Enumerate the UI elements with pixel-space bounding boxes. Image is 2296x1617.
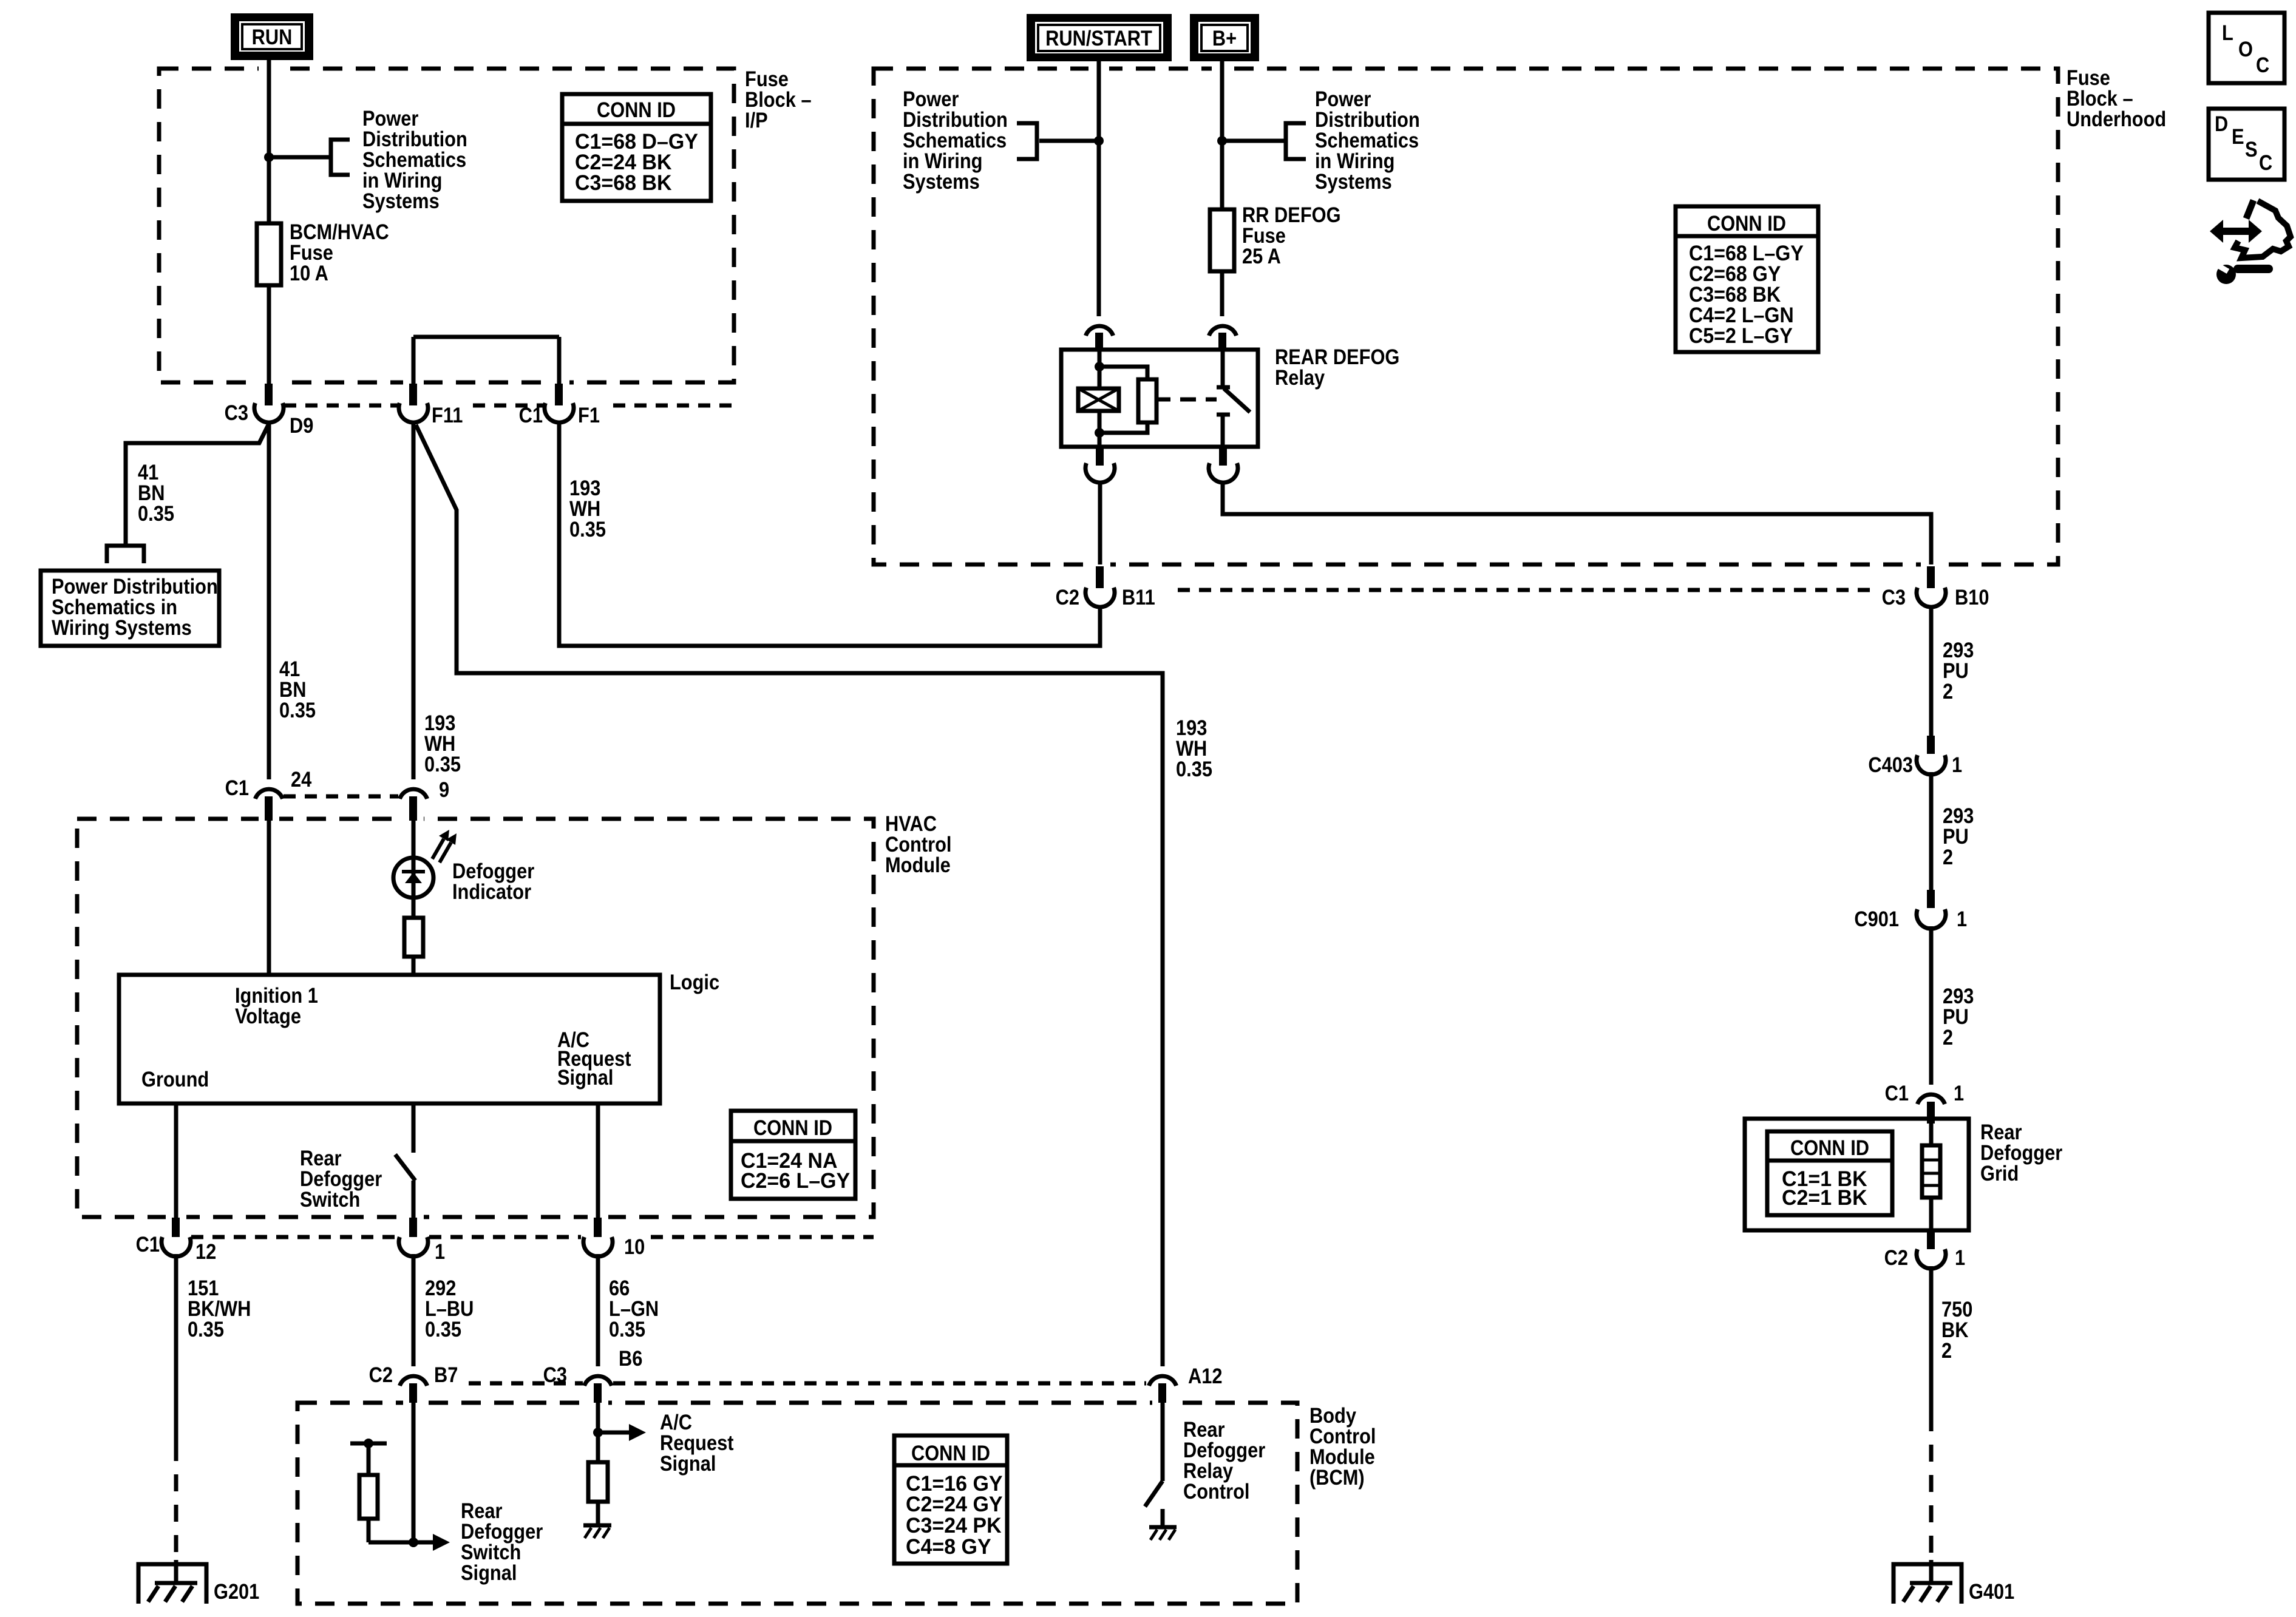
svg-text:A12: A12 (1188, 1364, 1223, 1388)
wire A12 into BCM (1161, 1403, 1165, 1481)
svg-text:Grid: Grid (1980, 1162, 2019, 1185)
svg-text:D9: D9 (290, 414, 313, 438)
BCM dashed box (297, 1403, 1297, 1604)
RUN keyswitch box (231, 13, 313, 60)
connector 9 (399, 778, 449, 821)
svg-text:25 A: 25 A (1242, 245, 1281, 268)
connector C2/B11 (1056, 566, 1155, 609)
svg-text:1: 1 (435, 1240, 445, 1264)
svg-text:9: 9 (439, 778, 449, 802)
dashed wire to G201 (174, 1444, 178, 1561)
svg-text:Voltage: Voltage (235, 1005, 301, 1028)
connector C3/B6 (543, 1347, 643, 1403)
connector C2/B7 (369, 1363, 458, 1403)
svg-text:Ground: Ground (141, 1068, 209, 1091)
wire junction to bracket (269, 155, 330, 160)
svg-text:C: C (2259, 151, 2272, 175)
wire switch from logic (412, 1103, 416, 1153)
junction dot T (364, 1439, 373, 1448)
svg-text:2: 2 (1943, 1026, 1953, 1049)
connector 10 (583, 1218, 645, 1259)
wire ground from logic (174, 1103, 178, 1218)
svg-text:Underhood: Underhood (2067, 107, 2166, 131)
wire RUN down through fuse to D9 (267, 60, 271, 384)
svg-text:Signal: Signal (660, 1452, 716, 1476)
relay coil wire (1098, 350, 1102, 447)
svg-text:0.35: 0.35 (425, 1318, 461, 1341)
defogger indicator LED (393, 830, 457, 898)
svg-text:C3: C3 (1882, 586, 1906, 609)
relay resistor loop (1099, 367, 1147, 433)
DESC box (2209, 109, 2284, 180)
svg-text:RUN/START: RUN/START (1045, 27, 1152, 50)
power distribution schematics box (left) (41, 571, 219, 646)
svg-text:Systems: Systems (362, 189, 440, 213)
connector C2/1 grid (1884, 1230, 1966, 1270)
svg-text:Systems: Systems (903, 170, 980, 194)
svg-text:C1: C1 (225, 776, 249, 800)
wire 9 down to LED (412, 821, 416, 858)
svg-text:0.35: 0.35 (609, 1318, 645, 1341)
svg-text:2: 2 (1943, 846, 1953, 869)
connector 1 (399, 1218, 445, 1264)
svg-text:C1: C1 (136, 1233, 160, 1256)
fine dash row 2 (284, 795, 398, 799)
ground A/C (small) (583, 1525, 611, 1538)
svg-text:2: 2 (1941, 1339, 1952, 1363)
wire B+ down to relay (1220, 61, 1224, 316)
junction dot B+ (1217, 136, 1227, 146)
svg-text:G201: G201 (214, 1580, 259, 1604)
svg-text:B10: B10 (1955, 586, 1989, 609)
svg-text:RUN: RUN (252, 25, 293, 49)
svg-text:0.35: 0.35 (188, 1318, 224, 1341)
resistor indicator (404, 918, 423, 957)
rear defogger switch blade (395, 1154, 415, 1181)
svg-text:C5=2 L–GY: C5=2 L–GY (1689, 324, 1793, 348)
wire LED to resistor (412, 898, 416, 918)
grid element (1922, 1145, 1940, 1198)
wire junction to bracket (right underhood) (1222, 139, 1286, 143)
svg-text:C901: C901 (1854, 907, 1899, 931)
svg-text:Signal: Signal (461, 1561, 517, 1585)
svg-text:C403: C403 (1868, 753, 1913, 777)
svg-text:1: 1 (1954, 1082, 1964, 1105)
svg-text:C3: C3 (225, 401, 248, 425)
T bar (350, 1442, 387, 1446)
svg-text:B7: B7 (434, 1363, 458, 1387)
relay REAR DEFOG box (1061, 350, 1258, 447)
junction dot RUN/START (1094, 136, 1104, 146)
svg-text:0.35: 0.35 (424, 753, 461, 776)
svg-text:CONN ID: CONN ID (1707, 212, 1786, 236)
svg-text:B6: B6 (619, 1347, 642, 1371)
relay top connector left (1085, 326, 1113, 351)
svg-text:1: 1 (1955, 1246, 1965, 1270)
svg-text:CONN ID: CONN ID (1790, 1136, 1869, 1160)
wire 10 down to B6 (596, 1254, 600, 1366)
svg-text:CONN ID: CONN ID (911, 1442, 990, 1465)
svg-text:1: 1 (1957, 907, 1967, 931)
arrow rear defogger switch signal (413, 1541, 433, 1545)
svg-text:CONN ID: CONN ID (753, 1116, 832, 1140)
svg-text:(BCM): (BCM) (1309, 1466, 1365, 1490)
connector A12 (1149, 1364, 1222, 1403)
wire relay left pin down to B11 (1098, 483, 1102, 564)
svg-text:C: C (2256, 53, 2269, 77)
wire to ground BCM (1161, 1509, 1165, 1527)
svg-text:D: D (2215, 112, 2228, 136)
wire 12 down to G201 (174, 1254, 178, 1444)
wire 1 down to B7 (412, 1254, 416, 1366)
wire F1 down right to B11 (559, 422, 1100, 646)
connector C1/1 grid (1885, 1082, 1965, 1124)
wire resistor to ground (596, 1502, 600, 1525)
wire C1/24 into logic (267, 821, 271, 975)
fuse BCM/HVAC (257, 223, 281, 285)
junction dot B7 (409, 1537, 418, 1547)
HVAC control module dashed box (77, 819, 874, 1217)
svg-text:Module: Module (885, 853, 951, 877)
relay bottom connector left (1085, 447, 1115, 483)
relay resistor tap (1156, 398, 1170, 402)
CONN ID table underhood (1676, 206, 1818, 352)
CONN ID table I/P (562, 94, 711, 201)
fuse block I/P dashed box (159, 69, 734, 382)
svg-text:0.35: 0.35 (1176, 758, 1212, 781)
svg-text:C2=24 GY: C2=24 GY (906, 1493, 1003, 1516)
wire C403 down to C901 (1929, 772, 1934, 890)
adjust icon (hand with arrow and wrench) (2210, 200, 2291, 284)
fine dash row B11-B10 (1178, 588, 1876, 592)
connector C1/12 (136, 1218, 217, 1264)
fuse block Underhood dashed box (874, 69, 2058, 564)
ground G201 (138, 1560, 259, 1604)
svg-text:0.35: 0.35 (279, 699, 316, 722)
connector C403/1 (1868, 736, 1962, 777)
plug symbol above power dist box (107, 546, 144, 563)
arrow A/C request signal (598, 1431, 629, 1435)
connector C1/F1 (519, 384, 600, 427)
wire F11-F1 jumper (413, 337, 559, 384)
wire into grid element (1929, 1124, 1934, 1230)
svg-text:C1: C1 (1885, 1082, 1909, 1105)
CONN ID table HVAC (731, 1111, 855, 1199)
ground BCM (small) (1149, 1527, 1177, 1540)
wire C2 grid down (1929, 1266, 1934, 1414)
svg-text:C4=8 GY: C4=8 GY (906, 1535, 991, 1559)
svg-text:G401: G401 (1969, 1580, 2014, 1604)
svg-text:C2: C2 (369, 1363, 393, 1387)
wire switch down (412, 1181, 416, 1218)
fine dash row 1 (284, 404, 733, 408)
connector C1/24 (225, 768, 312, 821)
wire C901 down to C1 grid (1929, 926, 1934, 1085)
bracket power distribution underhood left (1017, 123, 1037, 159)
rear defogger grid box (1745, 1119, 1969, 1230)
relay dashed link (1180, 398, 1217, 402)
connector C3/D9 (225, 384, 314, 438)
CONN ID table grid (1767, 1131, 1892, 1215)
svg-text:Signal: Signal (557, 1066, 613, 1090)
svg-text:B11: B11 (1122, 586, 1155, 609)
dashed wire to G401 (1929, 1414, 1934, 1561)
resistor BCM (359, 1475, 378, 1519)
junction dot RUN branch (264, 152, 274, 162)
wire junction to bracket (left underhood) (1039, 139, 1099, 143)
svg-text:0.35: 0.35 (138, 502, 174, 526)
svg-text:I/P: I/P (745, 109, 768, 132)
svg-text:F11: F11 (432, 404, 463, 427)
logic box (119, 975, 660, 1103)
svg-text:24: 24 (291, 768, 312, 792)
svg-text:C2: C2 (1056, 586, 1079, 609)
wire relay right pin down right to B10 (1223, 483, 1931, 564)
relay top connector right (1209, 326, 1236, 351)
fine dash row 3 (191, 1235, 874, 1239)
wire F11 diagonal branch to A12 (416, 425, 1163, 1366)
wire F11 down to 9 (412, 422, 416, 779)
svg-text:Indicator: Indicator (452, 880, 531, 904)
connector C901/1 (1854, 890, 1967, 931)
svg-text:L: L (2222, 21, 2233, 45)
ground G401 (1894, 1560, 2014, 1604)
wire B6 into BCM (596, 1403, 600, 1462)
svg-text:O: O (2238, 38, 2253, 61)
svg-text:Relay: Relay (1275, 366, 1325, 390)
svg-text:10: 10 (624, 1235, 645, 1259)
svg-text:12: 12 (195, 1240, 216, 1264)
svg-text:10 A: 10 A (290, 262, 328, 285)
svg-text:Switch: Switch (300, 1188, 360, 1212)
wire D9 down to C1/24 (267, 422, 271, 779)
resistor A/C (588, 1462, 608, 1502)
RUN/START keyswitch box (1027, 14, 1172, 61)
wire resistor to logic (412, 957, 416, 975)
svg-text:Wiring Systems: Wiring Systems (52, 616, 192, 640)
wire B7 into BCM (412, 1403, 416, 1542)
B+ keyswitch box (1190, 14, 1259, 61)
connector F11 (399, 384, 463, 427)
svg-text:C3=68 BK: C3=68 BK (575, 171, 672, 195)
svg-text:2: 2 (1943, 680, 1953, 703)
connector C3/B10 (1882, 566, 1989, 609)
fuse RR DEFOG (1210, 209, 1234, 271)
bracket power distribution underhood right (1286, 123, 1306, 159)
wire B10 down to C403 (1929, 607, 1934, 736)
svg-text:CONN ID: CONN ID (597, 98, 676, 122)
svg-text:Logic: Logic (670, 971, 719, 994)
resistor branch B7 (369, 1443, 413, 1542)
relay control switch blade (1145, 1481, 1163, 1507)
svg-text:0.35: 0.35 (569, 518, 606, 541)
svg-text:B+: B+ (1212, 27, 1237, 50)
relay switch (1217, 350, 1250, 447)
fine dash row 4 (469, 1381, 1146, 1386)
svg-text:Control: Control (1183, 1480, 1250, 1503)
wire A/C from logic (596, 1103, 600, 1218)
svg-text:C2: C2 (1884, 1246, 1908, 1270)
relay bottom connector right (1209, 447, 1238, 483)
svg-text:Systems: Systems (1315, 170, 1392, 194)
junction dot B6 (593, 1428, 603, 1437)
svg-text:F1: F1 (578, 404, 600, 427)
svg-text:C2=1 BK: C2=1 BK (1782, 1186, 1867, 1210)
relay coil box with X (1078, 388, 1119, 411)
white gaps at wire crossings of dashed edges (259, 64, 279, 73)
svg-text:C2=6 L–GY: C2=6 L–GY (741, 1169, 850, 1193)
relay resistor (1138, 379, 1156, 422)
svg-text:E: E (2232, 125, 2244, 149)
relay coil junction dots (1095, 362, 1104, 371)
LOC box (2209, 13, 2284, 83)
svg-text:1: 1 (1952, 753, 1962, 777)
CONN ID table BCM (894, 1436, 1007, 1564)
svg-text:C3=24 PK: C3=24 PK (906, 1514, 1002, 1537)
wire 41 BN branch (126, 424, 269, 544)
wire RUN/START down to relay (1097, 61, 1101, 316)
bracket power distribution (I/P) (331, 140, 350, 175)
svg-text:S: S (2245, 138, 2258, 161)
